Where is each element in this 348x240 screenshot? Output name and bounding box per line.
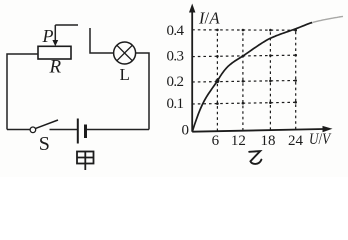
- y tick label 0.1: [167, 96, 184, 112]
- dashed vertical gridline U=18: [269, 30, 271, 130]
- dashed horizontal gridline I=0.2: [192, 81, 296, 83]
- battery cell: long plate: [77, 119, 79, 144]
- dashed vertical gridline U=24: [295, 30, 297, 129]
- dashed horizontal gridline I=0.4: [192, 29, 296, 31]
- dashed vertical gridline U=12: [242, 30, 244, 131]
- wire right side up to lamp: [136, 53, 149, 130]
- wire battery to bottom-right corner: [87, 129, 149, 131]
- resistor R (rheostat body): [38, 46, 71, 59]
- wire from slider P up and right to open terminal: [55, 24, 78, 26]
- grid intersection dots: [216, 29, 297, 105]
- svg-text:P: P: [42, 26, 54, 46]
- rheostat slider arrow P: [52, 25, 58, 46]
- wire lamp left terminal up to open terminal: [90, 28, 114, 53]
- label L: [120, 65, 130, 84]
- svg-text:S: S: [39, 133, 50, 155]
- y tick label 0.2: [167, 74, 184, 90]
- wire switch to battery: [50, 129, 78, 131]
- x tick label 12: [231, 133, 246, 149]
- axis label I/A: [198, 9, 221, 28]
- svg-text:A: A: [209, 9, 221, 28]
- svg-text:L: L: [120, 65, 130, 84]
- y tick label 0.4: [167, 23, 185, 39]
- y-axis (I axis) with arrowhead: [189, 4, 195, 132]
- battery cell: short plate: [84, 125, 87, 139]
- svg-text:24: 24: [288, 133, 304, 149]
- axis label U/V: [309, 131, 332, 148]
- I-U characteristic curve: [192, 23, 312, 132]
- label R: [49, 57, 62, 78]
- lamp L: [114, 42, 136, 64]
- wire from rheostat left terminal to bottom-left corner: [7, 54, 38, 130]
- faint continuation of curve: [313, 16, 343, 22]
- svg-text:18: 18: [261, 133, 276, 149]
- label S: [39, 133, 50, 155]
- wire bottom-left to switch: [7, 129, 30, 131]
- label 乙 (yǐ) drawn strokes: [249, 151, 261, 164]
- dashed vertical gridline U=6: [216, 30, 218, 131]
- svg-text:R: R: [49, 57, 62, 78]
- x tick label 24: [288, 133, 304, 149]
- label P: [42, 26, 54, 46]
- svg-text:0.1: 0.1: [167, 96, 184, 112]
- svg-text:0.3: 0.3: [167, 49, 184, 65]
- x-axis (U axis) with arrowhead: [192, 126, 332, 132]
- x tick label 6: [212, 133, 220, 149]
- svg-text:6: 6: [212, 133, 220, 149]
- x tick label 18: [261, 133, 276, 149]
- dashed horizontal gridline I=0.3: [192, 55, 296, 56]
- label 甲 (jiǎ) drawn strokes: [77, 152, 94, 171]
- data point at (6, 0.2): [215, 79, 219, 83]
- svg-text:0.2: 0.2: [167, 74, 184, 90]
- svg-text:0.4: 0.4: [167, 23, 185, 39]
- y tick label 0.3: [167, 49, 184, 65]
- svg-text:0: 0: [182, 123, 190, 139]
- svg-text:12: 12: [231, 133, 246, 149]
- dashed horizontal gridline I=0.1: [192, 102, 296, 104]
- svg-text:U/V: U/V: [309, 131, 332, 148]
- origin label 0: [182, 123, 190, 139]
- switch S: [30, 120, 58, 133]
